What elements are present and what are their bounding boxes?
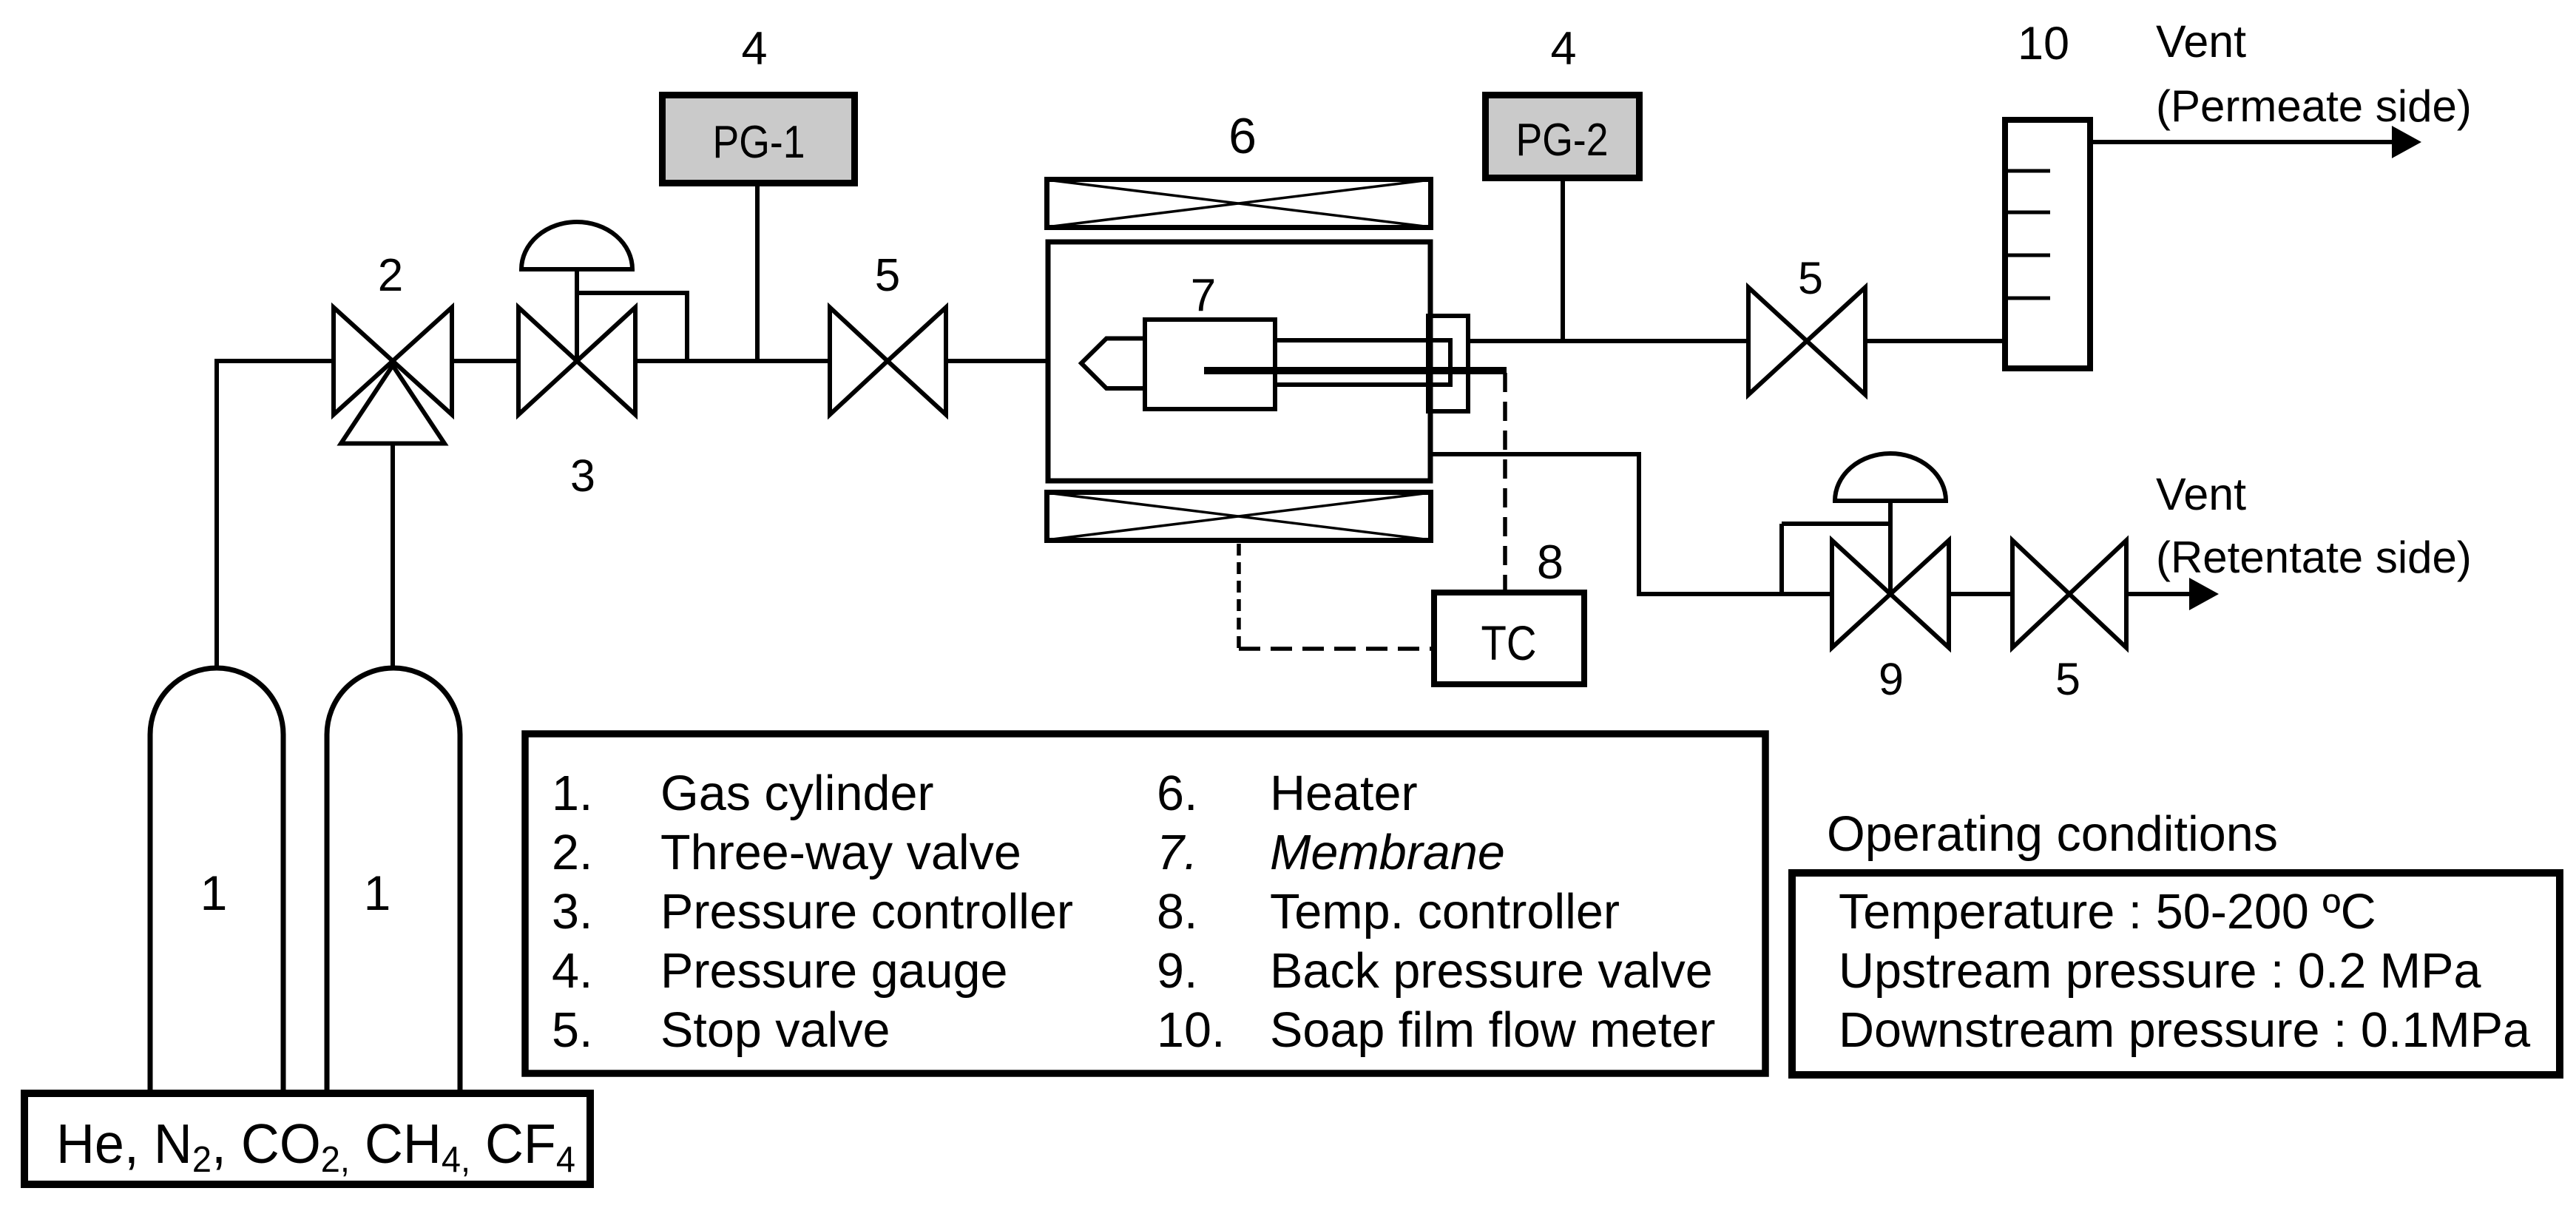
svg-text:Stop valve: Stop valve bbox=[660, 1003, 890, 1058]
svg-text:Pressure gauge: Pressure gauge bbox=[660, 944, 1008, 999]
svg-text:Vent: Vent bbox=[2156, 16, 2246, 67]
svg-text:2: 2 bbox=[378, 250, 403, 301]
svg-text:He, N2, CO2, CH4, CF4: He, N2, CO2, CH4, CF4 bbox=[56, 1113, 575, 1180]
svg-text:TC: TC bbox=[1481, 615, 1537, 670]
svg-text:9.: 9. bbox=[1157, 944, 1197, 999]
svg-text:Back pressure valve: Back pressure valve bbox=[1270, 944, 1713, 999]
svg-text:7: 7 bbox=[1191, 270, 1216, 321]
svg-text:4: 4 bbox=[741, 23, 767, 75]
svg-text:4.: 4. bbox=[552, 944, 592, 999]
svg-text:Operating conditions: Operating conditions bbox=[1827, 807, 2278, 862]
svg-text:Pressure controller: Pressure controller bbox=[660, 885, 1073, 939]
svg-text:1.: 1. bbox=[552, 766, 592, 821]
svg-text:Downstream pressure : 0.1MPa: Downstream pressure : 0.1MPa bbox=[1839, 1003, 2530, 1058]
svg-text:5: 5 bbox=[875, 250, 900, 301]
svg-text:3.: 3. bbox=[552, 885, 592, 939]
svg-text:Heater: Heater bbox=[1270, 766, 1418, 821]
svg-text:4: 4 bbox=[1550, 23, 1576, 75]
svg-text:2.: 2. bbox=[552, 826, 592, 880]
svg-text:1: 1 bbox=[200, 865, 228, 920]
svg-text:10.: 10. bbox=[1157, 1003, 1225, 1058]
svg-text:9: 9 bbox=[1879, 654, 1904, 704]
svg-text:PG-1: PG-1 bbox=[713, 117, 805, 168]
svg-text:8: 8 bbox=[1537, 535, 1563, 589]
svg-text:Upstream pressure : 0.2 MPa: Upstream pressure : 0.2 MPa bbox=[1839, 944, 2481, 999]
svg-text:Vent: Vent bbox=[2156, 469, 2246, 519]
svg-text:(Retentate side): (Retentate side) bbox=[2156, 533, 2472, 582]
svg-text:Three-way valve: Three-way valve bbox=[660, 826, 1021, 880]
svg-text:8.: 8. bbox=[1157, 885, 1197, 939]
svg-text:1: 1 bbox=[364, 865, 391, 920]
svg-text:Soap film flow meter: Soap film flow meter bbox=[1270, 1003, 1715, 1058]
svg-text:Temperature : 50-200 ºC: Temperature : 50-200 ºC bbox=[1839, 885, 2376, 939]
svg-text:7.: 7. bbox=[1157, 826, 1197, 880]
svg-text:5: 5 bbox=[2055, 654, 2080, 704]
svg-text:6.: 6. bbox=[1157, 766, 1197, 821]
svg-text:(Permeate side): (Permeate side) bbox=[2156, 81, 2472, 131]
svg-text:6: 6 bbox=[1228, 108, 1257, 164]
svg-text:Membrane: Membrane bbox=[1270, 826, 1505, 880]
svg-text:PG-2: PG-2 bbox=[1516, 115, 1609, 166]
svg-text:5.: 5. bbox=[552, 1003, 592, 1058]
svg-text:3: 3 bbox=[570, 451, 595, 501]
svg-text:Gas cylinder: Gas cylinder bbox=[660, 766, 934, 821]
svg-text:Temp. controller: Temp. controller bbox=[1270, 885, 1620, 939]
svg-text:5: 5 bbox=[1798, 253, 1823, 303]
svg-text:10: 10 bbox=[2018, 18, 2069, 70]
